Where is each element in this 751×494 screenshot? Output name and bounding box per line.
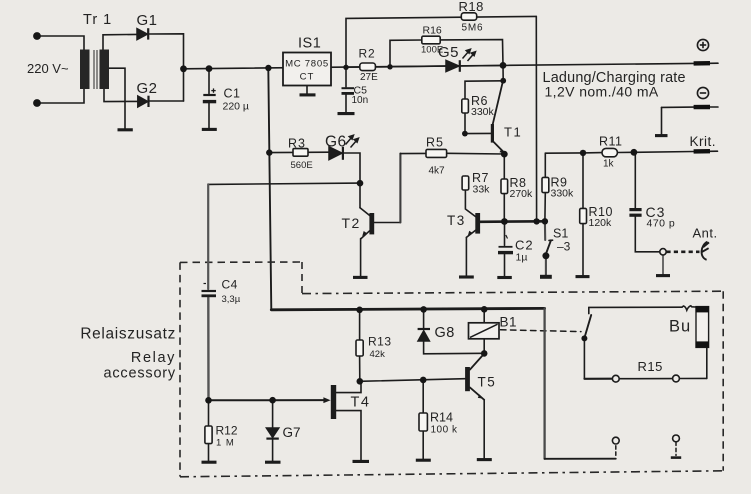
svg-text:Krit.: Krit.: [690, 134, 717, 149]
svg-text:330k: 330k: [471, 106, 495, 118]
svg-text:CT: CT: [300, 72, 315, 83]
svg-text:4k7: 4k7: [429, 166, 446, 177]
svg-text:1 M: 1 M: [216, 438, 235, 449]
svg-text:C2: C2: [515, 238, 534, 253]
svg-text:T1: T1: [504, 125, 522, 140]
svg-text:IS1: IS1: [298, 36, 321, 52]
svg-text:270k: 270k: [510, 188, 534, 200]
svg-text:1k: 1k: [603, 159, 615, 170]
svg-text:C4: C4: [222, 278, 238, 292]
svg-text:10n: 10n: [352, 95, 369, 106]
svg-text:T3: T3: [447, 213, 466, 228]
svg-text:Tr 1: Tr 1: [83, 12, 112, 28]
svg-text:Bu: Bu: [669, 318, 691, 336]
svg-text:S1: S1: [553, 227, 568, 241]
svg-text:R16: R16: [423, 25, 442, 37]
svg-text:3,3µ: 3,3µ: [222, 294, 241, 305]
svg-text:1µ: 1µ: [516, 252, 528, 264]
svg-text:Relay: Relay: [131, 350, 176, 366]
svg-text:G2: G2: [137, 80, 158, 97]
svg-text:R15: R15: [638, 359, 663, 374]
svg-text:R13: R13: [368, 335, 392, 349]
svg-text:R14: R14: [430, 411, 453, 425]
svg-text:T5: T5: [478, 375, 497, 390]
svg-text:220 V~: 220 V~: [27, 61, 69, 76]
svg-text:27E: 27E: [360, 72, 378, 83]
svg-text:G5: G5: [438, 44, 459, 61]
svg-text:B1: B1: [500, 315, 518, 330]
svg-text:42k: 42k: [370, 349, 386, 360]
svg-text:R11: R11: [599, 135, 623, 149]
svg-text:Ant.: Ant.: [693, 226, 718, 241]
svg-text:R5: R5: [426, 136, 444, 150]
svg-text:220 µ: 220 µ: [223, 101, 250, 113]
svg-text:–3: –3: [557, 240, 571, 254]
svg-text:G8: G8: [435, 325, 455, 341]
svg-text:accessory: accessory: [104, 366, 176, 382]
svg-text:330k: 330k: [551, 188, 575, 200]
svg-text:R18: R18: [459, 0, 484, 14]
svg-text:560E: 560E: [291, 160, 313, 171]
svg-text:Relaiszusatz: Relaiszusatz: [80, 326, 176, 343]
svg-text:120k: 120k: [589, 217, 613, 229]
svg-text:MC 7805: MC 7805: [285, 59, 329, 70]
svg-text:C1: C1: [224, 87, 241, 101]
svg-text:100 k: 100 k: [431, 425, 458, 436]
svg-text:G6: G6: [325, 134, 347, 151]
svg-text:G7: G7: [283, 425, 301, 440]
svg-text:T4: T4: [351, 395, 371, 411]
svg-text:G1: G1: [137, 12, 158, 29]
svg-text:T2: T2: [342, 215, 361, 231]
svg-text:R12: R12: [216, 424, 238, 438]
svg-text:5M6: 5M6: [462, 23, 484, 34]
svg-text:470 p: 470 p: [647, 218, 676, 230]
svg-text:33k: 33k: [473, 184, 491, 196]
svg-text:R2: R2: [359, 47, 376, 61]
svg-text:1,2V nom./40 mA: 1,2V nom./40 mA: [545, 84, 659, 100]
svg-text:R3: R3: [288, 137, 306, 151]
